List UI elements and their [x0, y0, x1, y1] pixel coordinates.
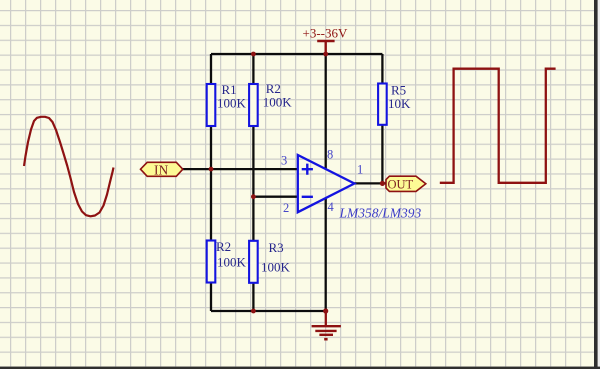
junction: top rail / power: [323, 52, 328, 57]
wire: R5 branch vertical: [381, 54, 383, 183]
svg-text:4: 4: [328, 200, 335, 214]
wire: power stem / op-amp pin 8 feed: [325, 54, 327, 169]
resistor R2 (lower) 100K: [207, 239, 247, 283]
svg-text:100K: 100K: [217, 255, 247, 270]
resistor R5 10K: [378, 83, 411, 125]
svg-text:LM358/LM393: LM358/LM393: [339, 206, 422, 221]
svg-text:1: 1: [357, 163, 363, 177]
svg-text:+3--36V: +3--36V: [303, 26, 348, 41]
svg-text:8: 8: [327, 148, 333, 162]
junction: top rail / R2 branch: [251, 52, 256, 57]
junction: output / R5 branch: [380, 181, 385, 186]
svg-text:100K: 100K: [261, 260, 291, 275]
wire: R2 branch vertical (top rail through upper R2 and R3 to bottom rail): [252, 54, 254, 311]
wire: op-amp output to OUT port: [354, 182, 387, 184]
power port +3--36V: [303, 26, 348, 55]
resistor R2 (upper) 100K: [249, 81, 292, 126]
sine wave input annotation: [24, 117, 114, 217]
svg-text:R2: R2: [216, 239, 231, 254]
wire: R2/R3 tap to op-amp pin 2: [253, 196, 297, 198]
square wave output annotation: [440, 69, 556, 183]
junction: bottom rail / ground: [323, 308, 328, 313]
junction: pin2 wire / R2-R3 tap: [251, 194, 256, 199]
svg-text:100K: 100K: [263, 95, 293, 110]
wire: IN to op-amp pin 3: [183, 168, 298, 170]
resistor R1 100K: [207, 82, 247, 126]
wire: top power rail: [211, 53, 382, 55]
svg-text:IN: IN: [154, 162, 168, 177]
wire: R1 branch vertical (top rail to bottom rail through R1 and lower R2): [210, 54, 212, 311]
svg-text:10K: 10K: [388, 96, 411, 111]
junction: bottom rail / R3 branch: [251, 309, 256, 314]
port OUT: [386, 176, 426, 191]
op-amp U1 LM358/LM393: [298, 155, 422, 221]
wire: op-amp pin 4 to ground: [325, 198, 327, 311]
svg-text:2: 2: [283, 201, 289, 215]
port IN: [141, 162, 183, 177]
wire: bottom rail: [211, 310, 326, 312]
svg-text:OUT: OUT: [388, 177, 414, 191]
svg-text:3: 3: [281, 154, 287, 168]
svg-text:R3: R3: [269, 240, 284, 255]
resistor R3 100K: [249, 240, 290, 283]
junction: IN wire / R1 branch: [209, 167, 214, 172]
svg-text:100K: 100K: [217, 96, 247, 111]
ground: [312, 311, 341, 339]
